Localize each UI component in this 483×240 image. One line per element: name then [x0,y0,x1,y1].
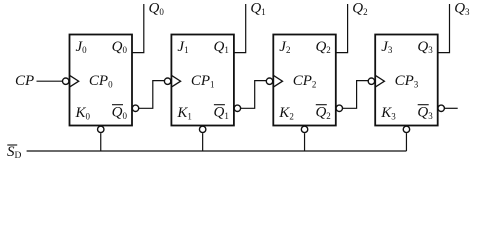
set input bubble S̄D of FF1 [199,126,205,132]
clock inversion bubble FF0 [62,78,68,84]
wire Q1 output stub and riser to top [234,4,246,53]
clock edge-trigger triangle FF0 [70,75,79,87]
clock edge-trigger triangle FF3 [375,75,384,87]
set input bubble S̄D of FF3 [403,126,409,132]
wire CP input to FF0 clock bubble [37,80,63,82]
pin label Q̄1 (inside, with overline) [214,104,229,120]
flip-flop FF0 body [70,35,133,126]
set input bubble S̄D of FF0 [98,126,104,132]
Q̄3 output inversion bubble [438,105,444,111]
wire Q̄3 output stub [445,107,458,109]
flip-flop FF2 body [273,35,336,126]
wire S̄D bottom rail [27,150,407,152]
svg-text:CP: CP [15,73,34,89]
wire Q̄1 to CP2 clock bubble [241,81,266,109]
node S̄D (active-low set input label) [7,144,22,161]
wire S̄D pin of FF0 down to rail [100,133,102,151]
flip-flop FF3 body [375,35,438,126]
wire Q3 output stub and riser to top [438,4,450,53]
pin label Q̄2 (inside, with overline) [315,104,330,120]
clock edge-trigger triangle FF1 [171,75,180,87]
Q̄2 output inversion bubble [336,105,342,111]
pin label Q̄0 (inside, with overline) [112,104,128,120]
wire Q̄2 to CP3 clock bubble [343,81,368,109]
flip-flop FF1 body [171,35,234,126]
set input bubble S̄D of FF2 [301,126,307,132]
Q̄0 output inversion bubble [132,105,138,111]
clock inversion bubble FF3 [368,78,374,84]
Q̄1 output inversion bubble [234,105,240,111]
wire S̄D pin of FF2 down to rail [304,133,306,151]
clock inversion bubble FF1 [164,78,170,84]
pin label Q̄3 (inside, with overline) [417,104,433,120]
wire Q̄0 to CP1 clock bubble [139,81,164,109]
clock edge-trigger triangle FF2 [273,75,282,87]
wire Q0 output stub and riser to top [132,4,144,53]
wire S̄D pin of FF3 down to rail [405,133,407,151]
wire Q2 output stub and riser to top [336,4,348,53]
clock inversion bubble FF2 [266,78,272,84]
wire S̄D pin of FF1 down to rail [202,133,204,151]
